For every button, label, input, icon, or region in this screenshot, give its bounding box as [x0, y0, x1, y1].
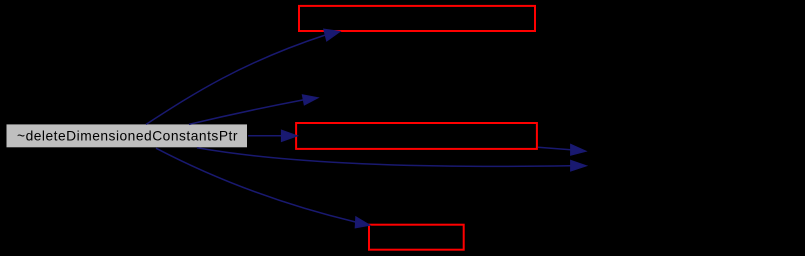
edge to hidden right node (lower)	[197, 148, 571, 167]
arrowhead to hidden node (upper middle)	[302, 95, 318, 105]
arrowhead to hidden right node (lower)	[571, 160, 587, 171]
edge middle box to hidden right node (upper)	[538, 147, 571, 150]
edge to middle box	[248, 135, 281, 137]
arrowhead to middle box	[281, 130, 297, 142]
node: bottom red box (callee, label hidden on black)	[369, 225, 464, 250]
edge to bottom box	[156, 148, 356, 222]
node: middle red box (callee, label hidden on black)	[296, 123, 537, 149]
arrowhead to top box	[324, 29, 341, 41]
edge to hidden node (upper middle)	[189, 100, 303, 125]
node: gray current-function box	[7, 124, 248, 147]
node: top red box (callee, label hidden on black)	[299, 6, 535, 31]
edge to top box	[146, 35, 325, 124]
arrowhead to bottom box	[355, 217, 370, 228]
arrowhead from middle box to hidden right node (upper)	[571, 144, 587, 155]
svg-text:~deleteDimensionedConstantsPtr: ~deleteDimensionedConstantsPtr	[17, 128, 238, 143]
